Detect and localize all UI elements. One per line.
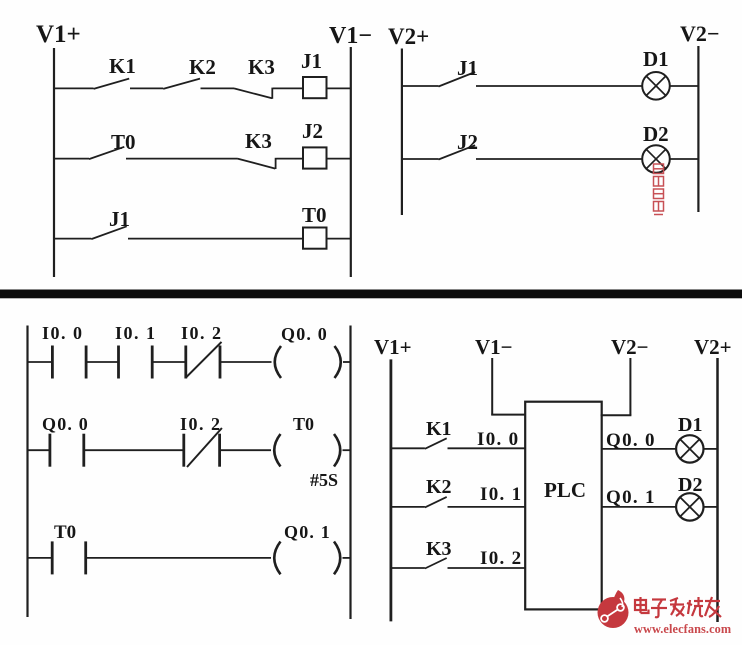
- contact K3 (break type, rung2): [238, 129, 276, 169]
- svg-text:K3: K3: [426, 538, 452, 560]
- node V2- (plc): [611, 335, 649, 359]
- watermark url text: [634, 622, 732, 636]
- svg-text:PLC: PLC: [544, 478, 586, 502]
- wire rung1 from V1+ rail: [53, 87, 94, 89]
- node V2+ (plc): [694, 335, 732, 359]
- contact K3 (plc input): [425, 538, 452, 569]
- wire rung2: [401, 158, 439, 160]
- svg-text:K3: K3: [245, 129, 272, 153]
- node V1-: [329, 23, 372, 49]
- svg-text:J2: J2: [302, 119, 323, 143]
- wire input rung K3: [390, 567, 425, 569]
- timer coil T0 with preset #5S: [274, 414, 340, 490]
- svg-text:I0. 2: I0. 2: [181, 323, 223, 343]
- svg-text:D2: D2: [678, 474, 702, 496]
- wire to V2- rail: [670, 85, 699, 87]
- svg-text:Q0. 1: Q0. 1: [284, 522, 331, 542]
- wire pin I0.0: [448, 429, 526, 450]
- wire to rail: [343, 557, 351, 559]
- svg-text:J1: J1: [301, 49, 322, 73]
- power rail V1+: [53, 48, 55, 277]
- svg-text:V2+: V2+: [694, 335, 732, 359]
- contact I0.0: [42, 323, 86, 379]
- contact I0.2 normally-closed: [181, 323, 223, 379]
- wire: [201, 87, 235, 89]
- wire to rail: [343, 449, 351, 451]
- svg-text:V2−: V2−: [611, 335, 649, 359]
- svg-text:J1: J1: [457, 56, 478, 80]
- contact I0.1: [115, 323, 157, 379]
- contact K3 (break type): [234, 55, 275, 99]
- contact J1: [91, 207, 130, 239]
- contact K1 (plc input): [425, 418, 452, 449]
- power rail V1-: [350, 47, 352, 277]
- wire: [86, 557, 271, 559]
- divider: [0, 290, 742, 299]
- wire: [273, 87, 303, 89]
- wire: [130, 87, 163, 89]
- contact J2: [439, 130, 479, 160]
- power rail V2-: [697, 46, 699, 212]
- wire: [128, 238, 303, 240]
- svg-text:#5S: #5S: [310, 470, 338, 490]
- wire V1- feed: [491, 358, 525, 415]
- svg-text:D1: D1: [678, 414, 702, 436]
- svg-text:I0. 1: I0. 1: [115, 323, 157, 343]
- relay coil J2: [302, 119, 327, 169]
- svg-text:K3: K3: [248, 55, 275, 79]
- wire: [86, 361, 118, 363]
- watermark brand text: [635, 597, 721, 617]
- wire input rung K1: [390, 447, 425, 449]
- wire input rung K2: [390, 506, 425, 508]
- wire output pin Q0.0: [602, 430, 676, 451]
- svg-text:Q0. 1: Q0. 1: [606, 487, 656, 508]
- lamp D1: [642, 47, 670, 100]
- output coil Q0.1: [274, 522, 340, 574]
- svg-text:K2: K2: [189, 55, 216, 79]
- svg-text:Q0. 0: Q0. 0: [606, 430, 656, 451]
- svg-text:Q0. 0: Q0. 0: [42, 414, 89, 434]
- wire to V1- rail: [327, 238, 351, 240]
- ladder right rail: [349, 326, 351, 620]
- wire: [476, 85, 642, 87]
- wire to V1- rail: [327, 158, 351, 160]
- svg-text:V1+: V1+: [36, 21, 81, 48]
- wire L-rung3: [27, 557, 52, 559]
- wire rung2 from V1+ rail: [53, 158, 89, 160]
- svg-text:V1−: V1−: [475, 335, 513, 359]
- svg-text:T0: T0: [111, 130, 136, 154]
- wire output pin Q0.1: [602, 487, 676, 508]
- node V2+: [388, 24, 429, 49]
- svg-text:K1: K1: [426, 418, 452, 440]
- svg-text:T0: T0: [302, 203, 327, 227]
- wire to rail: [343, 361, 351, 363]
- wire: [152, 361, 186, 363]
- wire: [476, 158, 642, 160]
- lamp D2 (plc output): [676, 474, 703, 521]
- power rail V2+ (plc): [716, 358, 719, 622]
- wire pin I0.1: [448, 484, 526, 507]
- wire to V2- rail: [670, 158, 699, 160]
- svg-text:V2−: V2−: [680, 21, 719, 46]
- wire L-rung2: [27, 449, 50, 451]
- svg-text:T0: T0: [293, 414, 314, 434]
- PLC box U1: [525, 402, 602, 610]
- watermark side vertical text: [654, 164, 664, 215]
- wire pin I0.2: [448, 548, 526, 569]
- svg-text:www.elecfans.com: www.elecfans.com: [634, 622, 732, 636]
- svg-text:J2: J2: [457, 130, 478, 154]
- svg-text:D2: D2: [643, 122, 669, 146]
- svg-text:I0. 0: I0. 0: [42, 323, 84, 343]
- node V1+: [36, 21, 81, 48]
- lamp D2: [642, 122, 670, 173]
- power rail V1+ (plc): [389, 359, 392, 621]
- wire to V1- rail: [327, 87, 351, 89]
- svg-text:T0: T0: [54, 522, 76, 543]
- wire V2- feed: [601, 358, 632, 415]
- node V1- (plc): [475, 335, 513, 359]
- watermark logo: [598, 590, 629, 628]
- svg-text:J1: J1: [109, 207, 130, 231]
- power rail V2+: [401, 49, 403, 216]
- svg-text:V1+: V1+: [374, 335, 412, 359]
- contact T0: [89, 130, 136, 159]
- wire rung1: [401, 85, 439, 87]
- svg-text:K2: K2: [426, 476, 452, 498]
- wire: [220, 449, 271, 451]
- svg-text:D1: D1: [643, 47, 669, 71]
- node V1+ (plc): [374, 335, 412, 359]
- contact K2: [163, 55, 216, 89]
- ladder left rail: [26, 326, 28, 618]
- contact T0: [52, 522, 85, 574]
- svg-text:V2+: V2+: [388, 24, 429, 49]
- svg-text:V1−: V1−: [329, 23, 372, 49]
- contact J1: [439, 56, 479, 87]
- timer coil T0: [302, 203, 327, 249]
- svg-text:K1: K1: [109, 54, 136, 78]
- contact Q0.0: [42, 414, 89, 467]
- lamp D1 (plc output): [676, 414, 703, 463]
- wire to V2+ rail: [704, 448, 718, 450]
- wire to V2+ rail: [704, 506, 718, 508]
- svg-text:Q0. 0: Q0. 0: [281, 324, 328, 344]
- svg-text:I0. 0: I0. 0: [477, 429, 519, 450]
- wire L-rung1: [27, 361, 52, 363]
- contact K2 (plc input): [425, 476, 452, 507]
- svg-text:I0. 2: I0. 2: [180, 414, 222, 434]
- wire: [84, 449, 184, 451]
- wire: [220, 361, 272, 363]
- output coil Q0.0: [275, 324, 341, 378]
- contact I0.2 normally-closed (rung2): [180, 414, 222, 467]
- contact K1: [94, 54, 136, 89]
- node V2-: [680, 21, 719, 46]
- svg-text:I0. 2: I0. 2: [480, 548, 522, 569]
- wire: [126, 158, 238, 160]
- relay coil J1: [301, 49, 327, 98]
- wire: [277, 158, 304, 160]
- svg-text:I0. 1: I0. 1: [480, 484, 522, 505]
- wire rung3 from V1+ rail: [53, 238, 91, 240]
